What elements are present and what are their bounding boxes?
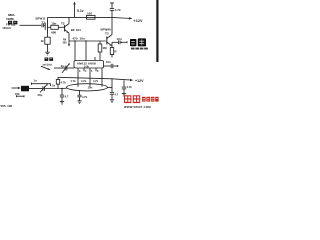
wire T3 emitter output [112, 42, 118, 46]
ground column 2 [122, 94, 126, 97]
watermark red logo [124, 95, 159, 109]
label BFW11 T3 [101, 28, 111, 36]
capacitor junction C to ground [60, 89, 64, 102]
wire IC pin3 to coil [77, 71, 79, 87]
svg-text:+12V: +12V [134, 19, 143, 23]
capacitor coil tap to ground [77, 91, 81, 101]
svg-text:4.7: 4.7 [65, 94, 69, 98]
wire coil right up to bus [111, 79, 113, 92]
capacitor C 4.7u top right [110, 3, 114, 17]
svg-text:20p: 20p [38, 93, 43, 97]
svg-text:1u: 1u [34, 79, 38, 83]
label FM input annotation block [6, 13, 16, 21]
capacitor IC right 10n [111, 64, 118, 68]
wire junction B down to IC pin [85, 41, 87, 61]
svg-text:10n: 10n [51, 21, 56, 25]
node junction dot A [74, 40, 76, 42]
scan edge bar right [156, 0, 158, 62]
label BFW11 T1 [36, 17, 46, 25]
label antenna bold [8, 21, 17, 25]
input arrow bottom left [12, 87, 21, 89]
emitter arrow stub [68, 41, 70, 47]
wire IC right pin [104, 65, 111, 67]
resistor 1k T1 source [45, 37, 50, 44]
svg-text:9.1v: 9.1v [77, 9, 84, 13]
resistor T3 emitter [110, 46, 113, 58]
wire junction A down to IC pin [74, 41, 76, 61]
wire tuning to IC left [54, 67, 65, 69]
wire bus to +12V bottom [58, 77, 133, 81]
wire coil right [108, 87, 113, 89]
IC U1 box [74, 61, 104, 69]
wire stub 15k [17, 95, 25, 97]
resistor 100 on rail [87, 15, 96, 19]
node +9V supply arrow [73, 2, 76, 18]
capacitor right column 2 [122, 80, 126, 93]
resistor 1M [98, 41, 102, 61]
wire input to T1 gate [20, 24, 42, 26]
wire T1 source [47, 33, 49, 37]
svg-text:WWW.58007.COM: WWW.58007.COM [124, 105, 151, 109]
label pin numbers [79, 70, 99, 73]
node +12V arrow top right [129, 17, 133, 19]
svg-text:10n: 10n [117, 37, 122, 41]
transistor T2 [65, 17, 69, 41]
capacitor input coupling [42, 23, 45, 27]
svg-text:2p: 2p [61, 64, 65, 68]
transistor T1 mosfet [45, 17, 51, 33]
svg-text:+12V: +12V [135, 79, 144, 83]
label tuning annotation [43, 58, 54, 67]
IC top pin tick [94, 57, 96, 61]
wire IC pin7 to coil [101, 71, 103, 87]
label AN612 [77, 61, 96, 68]
svg-text:565. 190: 565. 190 [1, 104, 13, 108]
svg-text:4.7k: 4.7k [81, 79, 87, 83]
wire top supply rail [48, 16, 113, 18]
node junction dot C [61, 88, 63, 90]
IC bottom pins [78, 68, 102, 71]
arrow tuning pointer [41, 66, 51, 70]
wire box to trimmer [29, 88, 43, 90]
capacitor trimmer 20p [40, 84, 62, 93]
svg-text:sel.(in): sel.(in) [43, 62, 52, 66]
svg-text:4.7: 4.7 [115, 92, 119, 96]
node junction output dot [121, 42, 122, 43]
svg-text:15k: 15k [15, 92, 20, 96]
svg-text:470: 470 [73, 37, 78, 41]
ground T1 [45, 52, 50, 55]
ground junction C [60, 102, 64, 105]
filter FL1 black box [21, 86, 29, 92]
svg-text:T2: T2 [61, 21, 65, 25]
wire junction C to coil [62, 87, 67, 89]
capacitor trimmer 2p2 [62, 63, 74, 73]
resistor 680 [51, 25, 59, 29]
svg-text:5-0k: 5-0k [84, 65, 89, 68]
svg-text:10n: 10n [106, 60, 111, 64]
svg-text:10n: 10n [80, 37, 85, 41]
node junction dot B [85, 40, 87, 42]
svg-text:500: 500 [63, 42, 68, 45]
svg-text:1k: 1k [52, 83, 56, 87]
svg-text:4.7k: 4.7k [82, 95, 88, 99]
svg-text:4.7k: 4.7k [93, 79, 99, 83]
transistor T3 [107, 17, 112, 45]
coil oval L1 [67, 84, 108, 91]
svg-text:100: 100 [87, 12, 92, 16]
svg-text:1k: 1k [41, 39, 45, 43]
ground coil tap [77, 101, 81, 104]
wire to ground [47, 44, 49, 52]
wire 680 to T2 base [58, 26, 64, 28]
capacitor right column 1 [110, 92, 114, 99]
svg-text:4.7k: 4.7k [127, 85, 133, 89]
svg-text:10n: 10n [88, 86, 93, 90]
svg-text:680: 680 [51, 31, 56, 35]
wire link winding [32, 83, 51, 87]
svg-text:R: R [115, 50, 117, 54]
svg-text:T3: T3 [105, 32, 109, 36]
svg-text:4.7k: 4.7k [115, 8, 121, 12]
svg-text:=80mV: =80mV [2, 26, 11, 30]
svg-text:BF 194: BF 194 [71, 28, 81, 32]
wire main horizontal to T3 base [69, 40, 106, 42]
svg-text:4.7k: 4.7k [61, 80, 67, 84]
resistor left column [56, 77, 59, 88]
wire IC pin5 to coil [89, 71, 91, 87]
svg-text:1M: 1M [103, 46, 108, 50]
logo black stamp [130, 38, 148, 49]
capacitor output 10n [118, 40, 127, 44]
ground column 1 [110, 100, 114, 103]
svg-text:4.7k: 4.7k [71, 79, 77, 83]
svg-text:108M.: 108M. [6, 17, 15, 21]
